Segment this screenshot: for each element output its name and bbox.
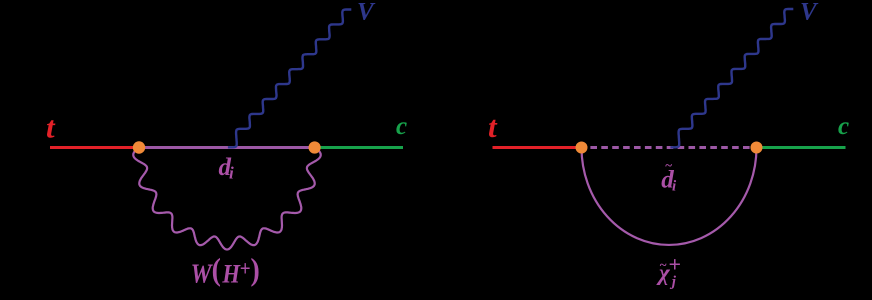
svg-text:c: c xyxy=(396,113,407,140)
svg-text:+: + xyxy=(240,257,251,280)
wire: internal squark propagator (purple dashed) xyxy=(582,146,757,149)
boson V wavy line (navy, left) xyxy=(228,10,351,148)
chargino loop: smooth semicircular arc (purple) xyxy=(582,148,757,245)
svg-text:~: ~ xyxy=(665,157,672,172)
wire: internal d_i quark propagator (purple) xyxy=(139,146,315,149)
wire: outgoing charm quark line c (green) xyxy=(315,146,403,149)
boson V wavy line (navy, right) xyxy=(670,9,793,147)
wire: outgoing charm quark line c (green, right) xyxy=(757,146,846,149)
svg-text:t: t xyxy=(46,110,56,145)
svg-text:(: ( xyxy=(212,252,221,287)
svg-text:j: j xyxy=(670,274,677,290)
svg-text:V: V xyxy=(357,0,376,26)
svg-text:t: t xyxy=(488,109,498,144)
svg-text:+: + xyxy=(669,252,682,277)
svg-text:H: H xyxy=(221,260,240,289)
svg-text:c: c xyxy=(838,113,849,140)
node: vertex 2 right diagram (orange dot) xyxy=(751,142,763,154)
wire: incoming top quark line t (red, right) xyxy=(493,146,582,149)
node: vertex 1 left diagram (orange dot) xyxy=(133,141,145,153)
svg-text:i: i xyxy=(672,179,677,195)
svg-text:V: V xyxy=(800,0,819,26)
svg-text:W: W xyxy=(191,259,213,289)
node: vertex 1 right diagram (orange dot) xyxy=(576,142,588,154)
svg-text:i: i xyxy=(229,163,234,182)
W(H+) boson loop: wavy semicircle (purple) xyxy=(133,148,320,250)
wire: incoming top quark line t (red) xyxy=(50,146,139,149)
svg-text:~: ~ xyxy=(660,257,667,272)
svg-text:): ) xyxy=(250,252,259,287)
label W(H+) group xyxy=(191,252,260,289)
node: vertex 2 left diagram (orange dot) xyxy=(309,141,321,153)
